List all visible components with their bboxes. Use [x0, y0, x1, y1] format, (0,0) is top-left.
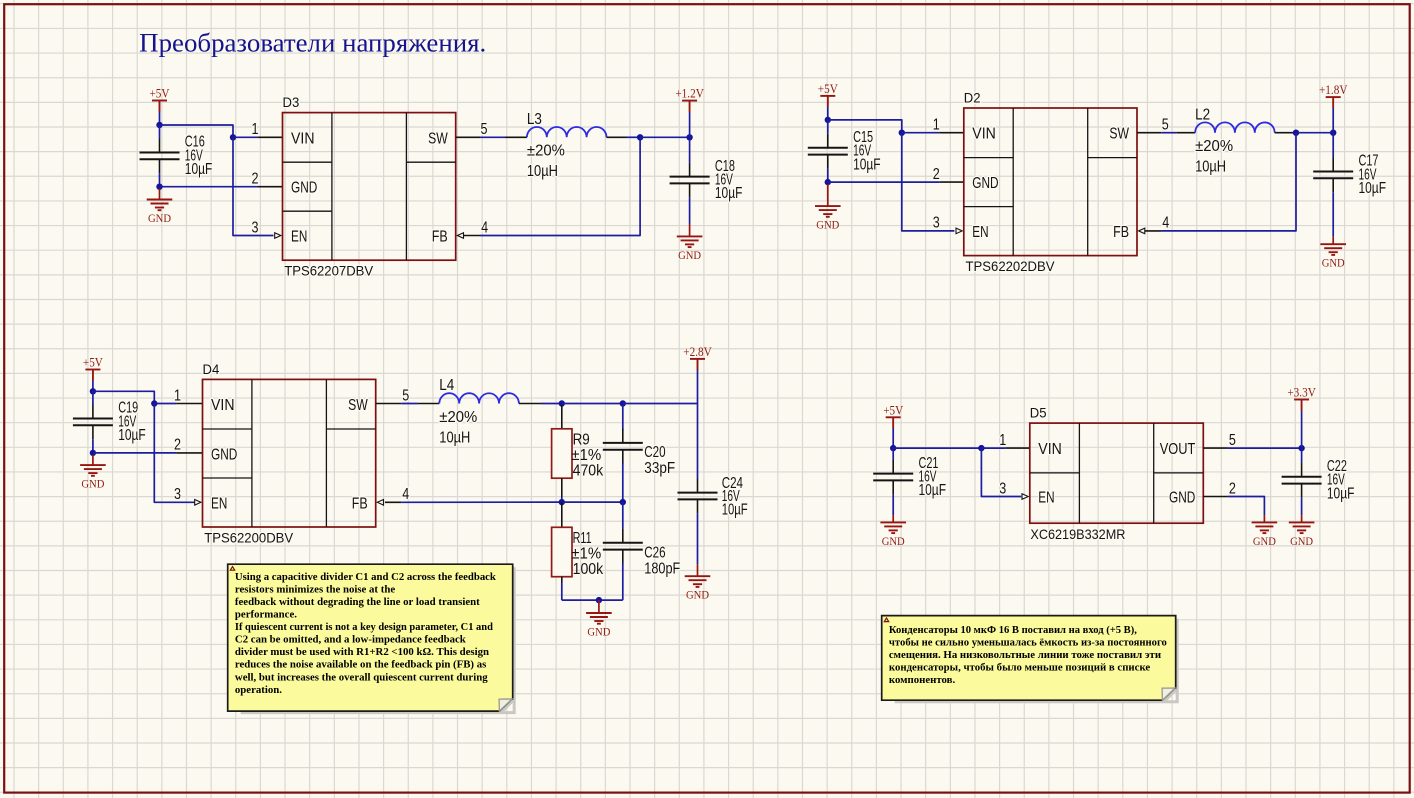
svg-text:10µF: 10µF [185, 161, 213, 178]
wire C16 top lead [159, 125, 161, 139]
wire +5V stem to node [159, 112, 161, 126]
wire R9 to FB net [561, 497, 563, 502]
junction C15/GND pin (D2) [825, 179, 831, 185]
svg-text:GND: GND [1253, 534, 1276, 548]
svg-text:4: 4 [402, 486, 409, 503]
svg-text:2: 2 [933, 166, 940, 183]
power +3.3V [1287, 385, 1316, 411]
svg-text:±20%: ±20% [439, 409, 477, 426]
pin 4 line (D4 FB) [385, 501, 401, 503]
ground GND under C22 [1289, 515, 1315, 548]
capacitor C21 [873, 460, 913, 495]
wire +5V stem to node (D5) [892, 428, 894, 448]
junction SW/FB feedback [637, 134, 643, 140]
resistor R9 [552, 429, 572, 478]
svg-text:3: 3 [933, 215, 940, 232]
wire +5V stem to node (D4) [92, 381, 94, 392]
FB input arrow (D4) [377, 500, 383, 506]
wire EN branch (D5) [981, 448, 1021, 496]
svg-text:feedback without degrading the: feedback without degrading the line or l… [235, 596, 480, 608]
FB input arrow (D2) [1139, 228, 1145, 234]
svg-text:SW: SW [428, 130, 448, 147]
svg-text:FB: FB [432, 229, 448, 246]
junction C19/GND pin (D4) [90, 450, 96, 456]
junction +1.2V/C18 [686, 134, 692, 140]
ground GND under C19 [80, 455, 106, 491]
wire to +1.8V node [1296, 132, 1333, 134]
wire node to C17 [1332, 133, 1334, 158]
wire to +2.8V branch [623, 403, 698, 405]
wire EN branch [233, 137, 274, 235]
svg-text:5: 5 [481, 121, 488, 138]
pin 2 line (GND) [258, 186, 283, 188]
svg-text:±20%: ±20% [527, 143, 565, 160]
svg-text:+1.2V: +1.2V [675, 86, 704, 101]
wire GND pin to ground [1228, 497, 1265, 516]
svg-text:10µF: 10µF [1359, 180, 1387, 197]
svg-text:performance.: performance. [235, 608, 297, 620]
wire node to C18 [689, 137, 691, 162]
wire EN branch (D2) [902, 133, 955, 231]
svg-text:+1.8V: +1.8V [1319, 82, 1348, 97]
wire C19 top lead [92, 391, 94, 404]
wire SW to L2 [1161, 132, 1176, 134]
power +5V (D4 input) [83, 355, 104, 381]
capacitor C26 bottom lead wire [622, 563, 624, 600]
junction VIN/EN branch (D5) [978, 445, 984, 451]
svg-text:GND: GND [816, 218, 839, 232]
L2 value label [1195, 106, 1233, 175]
C26 value label [644, 544, 680, 577]
junction +5V/C21 top [890, 445, 896, 451]
junction VIN/EN branch (D2) [899, 130, 905, 136]
op-amp U D4 TPS62200DBV body [203, 379, 376, 527]
power +5V (D2 input) [818, 81, 839, 107]
resistor R9 top lead [561, 405, 563, 429]
svg-text:+2.8V: +2.8V [683, 344, 712, 359]
ground GND under divider [586, 600, 612, 638]
wire to pin 1 (D5) [981, 447, 1005, 449]
capacitor C16 [140, 139, 180, 174]
svg-text:EN: EN [1038, 490, 1054, 507]
svg-text:Конденсаторы 10 мкФ 16 В поста: Конденсаторы 10 мкФ 16 В поставил на вхо… [889, 624, 1137, 636]
ground GND under C21 [880, 515, 906, 548]
svg-text:чтобы не сильно уменьшалась ём: чтобы не сильно уменьшалась ёмкость из-з… [889, 636, 1167, 648]
resistor R9 bottom lead [561, 478, 563, 497]
svg-text:±20%: ±20% [1195, 138, 1233, 155]
svg-text:смещения. На низковольтные лин: смещения. На низковольтные линии тоже по… [889, 649, 1161, 661]
svg-text:C26: C26 [644, 544, 665, 561]
svg-text:GND: GND [686, 588, 709, 602]
wire C15 bottom lead [827, 169, 829, 183]
svg-text:2: 2 [1229, 480, 1236, 497]
junction +1.8V/C17 [1330, 130, 1336, 136]
svg-text:10µH: 10µH [1195, 159, 1226, 176]
svg-text:C2 can be omitted, and a low-i: C2 can be omitted, and a low-impedance f… [235, 634, 466, 646]
inductor L2 [1195, 122, 1275, 132]
capacitor C18 [670, 163, 710, 198]
inductor L3 right lead [607, 136, 627, 138]
svg-text:3: 3 [999, 480, 1006, 497]
wire +1.8V stem [1332, 108, 1334, 133]
svg-text:3: 3 [252, 219, 259, 236]
svg-text:Преобразователи напряжения.: Преобразователи напряжения. [139, 28, 486, 57]
junction SW/C20 [620, 400, 626, 406]
ground GND under C18 [677, 224, 703, 262]
capacitor C26 top lead wire [622, 502, 624, 529]
junction FB/C20/C26 [620, 499, 626, 505]
pin 5 line (SW) [456, 136, 480, 138]
svg-text:GND: GND [972, 175, 998, 192]
inductor L2 left lead [1176, 132, 1195, 134]
svg-text:If quiescent current is not a: If quiescent current is not a key design… [235, 621, 493, 633]
power +1.8V [1319, 82, 1348, 108]
EN input arrow (D5) [1022, 494, 1028, 500]
junction +5V/C19 top [90, 388, 96, 394]
wire C15 top lead [827, 120, 829, 134]
resistor R11 [552, 527, 572, 576]
svg-text:5: 5 [1229, 432, 1236, 449]
pin 1 line (VIN) [258, 136, 283, 138]
svg-text:GND: GND [1169, 490, 1195, 507]
junction SW/R9 [559, 400, 565, 406]
svg-text:TPS62200DBV: TPS62200DBV [204, 529, 294, 545]
R9 value label [571, 431, 604, 479]
svg-text:470k: 470k [573, 462, 604, 479]
svg-text:VIN: VIN [972, 126, 996, 143]
svg-text:EN: EN [972, 224, 988, 241]
inductor L3 [527, 127, 607, 137]
svg-text:1: 1 [999, 432, 1006, 449]
svg-text:operation.: operation. [235, 684, 282, 696]
wire +2.8V stem [697, 370, 699, 404]
inductor L2 right lead [1275, 132, 1295, 134]
capacitor C19 [73, 405, 113, 440]
svg-text:GND: GND [882, 534, 905, 548]
svg-text:XC6219B332MR: XC6219B332MR [1030, 526, 1125, 542]
L3 value label [527, 111, 565, 180]
junction VIN/EN branch (D4) [151, 400, 157, 406]
wire +5V to VIN [160, 125, 234, 137]
wire C18 to ground [689, 197, 691, 223]
ground GND under C24 [685, 564, 711, 602]
svg-text:EN: EN [291, 229, 307, 246]
wire FB net [401, 501, 562, 503]
power +5V (D5 input) [883, 402, 904, 428]
svg-text:resistors minimizes the noise: resistors minimizes the noise at the [235, 583, 395, 595]
ground GND at D5 pin 2 [1252, 515, 1278, 548]
power +1.2V [675, 86, 704, 112]
svg-text:TPS62202DBV: TPS62202DBV [966, 258, 1056, 274]
svg-text:GND: GND [81, 477, 104, 491]
wire C24 to ground [697, 513, 699, 564]
junction FB/R9/R11 [559, 499, 565, 505]
C18 value label [715, 158, 743, 202]
inductor L4 [439, 393, 519, 403]
pin 5 line (D2 SW) [1137, 132, 1161, 134]
wire C17 to ground [1332, 192, 1334, 237]
svg-text:FB: FB [352, 495, 368, 512]
note (capacitor note, right) text [889, 624, 1167, 686]
pin 5 line (D4 SW) [376, 403, 402, 405]
wire GND net to pin 2 (D4) [93, 452, 176, 454]
svg-text:GND: GND [1322, 256, 1345, 270]
svg-text:10µF: 10µF [722, 502, 748, 519]
svg-text:1: 1 [174, 387, 181, 404]
pin 5 line (D5 VOUT) [1203, 447, 1228, 449]
svg-text:VIN: VIN [1038, 441, 1062, 458]
svg-text:180pF: 180pF [644, 560, 680, 577]
svg-text:GND: GND [148, 211, 171, 225]
svg-text:L2: L2 [1195, 106, 1210, 123]
pin 1 line (D4 VIN) [176, 403, 202, 405]
wire +5V to VIN (D2) [828, 120, 902, 133]
junction SW/FB feedback (D2) [1293, 130, 1299, 136]
wire L3 to FB node [627, 136, 641, 138]
pin 1 line (D2 VIN) [939, 132, 964, 134]
C16 value label [185, 134, 213, 178]
wire L4 to R9 node [541, 403, 562, 405]
svg-text:SW: SW [348, 397, 368, 414]
wire VOUT to +3.3V node [1228, 447, 1302, 449]
ground GND under C17 [1320, 237, 1346, 270]
svg-text:компонентов.: компонентов. [889, 674, 956, 686]
svg-text:+3.3V: +3.3V [1287, 385, 1316, 400]
svg-text:4: 4 [481, 219, 488, 236]
svg-text:10µF: 10µF [118, 427, 146, 444]
svg-text:5: 5 [402, 387, 409, 404]
svg-text:L3: L3 [527, 111, 542, 128]
inductor L4 left lead [418, 403, 439, 405]
svg-text:10µF: 10µF [853, 156, 881, 173]
capacitor C17 [1313, 158, 1353, 193]
wire bottom gnd net [562, 599, 623, 601]
svg-text:4: 4 [1162, 215, 1169, 232]
svg-text:3: 3 [174, 486, 181, 503]
svg-text:10µH: 10µH [439, 429, 470, 446]
wire +5V to VIN (D5) [893, 447, 981, 449]
svg-text:33pF: 33pF [644, 460, 675, 477]
pin 4 line (D2 FB) [1145, 230, 1162, 232]
wire to pin 1 [233, 136, 258, 138]
note (capacitor note, right) [882, 616, 1179, 704]
svg-text:+5V: +5V [818, 81, 839, 96]
wire L2 to FB node [1295, 132, 1296, 134]
svg-text:VIN: VIN [291, 130, 315, 147]
wire C19 bottom lead [92, 439, 94, 453]
svg-text:VIN: VIN [211, 397, 235, 414]
svg-text:GND: GND [1290, 534, 1313, 548]
wire EN branch (D4) [154, 404, 194, 503]
FB input arrow (D3) [457, 233, 463, 239]
svg-text:SW: SW [1109, 126, 1129, 143]
C21 value label [919, 455, 947, 499]
wire C16 bottom lead to GND node [159, 173, 161, 186]
svg-text:VOUT: VOUT [1160, 441, 1196, 458]
capacitor C22 [1282, 463, 1322, 498]
svg-text:R9: R9 [573, 431, 590, 448]
capacitor C20 bottom lead wire [622, 463, 624, 502]
wire FB feedback loop [480, 137, 640, 235]
EN input arrow (D4) [195, 500, 201, 506]
EN input arrow (D2) [956, 228, 962, 234]
wire R11 to bottom node [561, 583, 563, 601]
svg-text:R11: R11 [573, 530, 592, 547]
op-amp U D2 TPS62202DBV body [964, 108, 1137, 256]
pin 2 line (D5 GND) [1203, 496, 1228, 498]
svg-text:конденсаторы, чтобы было меньш: конденсаторы, чтобы было меньше позиций … [889, 662, 1150, 674]
op-amp U D3 TPS62207DBV body [283, 113, 456, 261]
svg-text:C20: C20 [644, 444, 665, 461]
svg-text:D3: D3 [283, 94, 300, 110]
svg-text:2: 2 [252, 171, 259, 188]
svg-text:GND: GND [291, 180, 317, 197]
power +5V (D3 input) [150, 86, 171, 112]
capacitor C24 [678, 479, 718, 514]
L4 value label [439, 377, 477, 446]
svg-text:100k: 100k [573, 561, 604, 578]
wire +1.2V stem [689, 112, 691, 137]
svg-text:±1%: ±1% [571, 447, 601, 464]
wire GND net to pin 2 (D2) [828, 181, 940, 183]
svg-text:10µF: 10µF [1327, 485, 1355, 502]
svg-text:reduces the noise available on: reduces the noise available on the feedb… [235, 659, 486, 671]
svg-text:5: 5 [1162, 117, 1169, 134]
op-amp U D5 XC6219B332MR body [1030, 423, 1204, 523]
capacitor C20 [603, 429, 643, 464]
C20 value label [644, 444, 675, 477]
svg-text:L4: L4 [439, 377, 454, 394]
junction +5V/C16 top [156, 122, 162, 128]
pin 2 line (D2 GND) [939, 181, 964, 183]
svg-text:D4: D4 [203, 361, 220, 377]
wire to pin 1 (D4) [154, 403, 176, 405]
wire to +1.2V node [640, 136, 690, 138]
svg-text:10µF: 10µF [919, 482, 947, 499]
svg-text:GND: GND [678, 248, 701, 262]
capacitor C20 top lead wire [622, 404, 624, 430]
junction +3.3V/C22 [1298, 445, 1304, 451]
svg-text:±1%: ±1% [571, 546, 601, 563]
wire FB feedback loop (D2) [1161, 133, 1296, 231]
wire +2.8V branch down to C24 [697, 404, 699, 479]
svg-text:1: 1 [252, 121, 259, 138]
junction C16/GND pin [156, 184, 162, 190]
svg-text:1: 1 [933, 117, 940, 134]
svg-text:10µF: 10µF [715, 185, 743, 202]
inductor L3 left lead [505, 136, 527, 138]
svg-text:Using a capacitive divider C1: Using a capacitive divider C1 and C2 acr… [235, 571, 496, 583]
wire node to C22 [1301, 448, 1303, 463]
inductor L4 right lead [519, 403, 541, 405]
svg-text:TPS62207DBV: TPS62207DBV [284, 263, 374, 279]
junction bottom gnd tap [596, 597, 602, 603]
svg-text:well, but increases the overal: well, but increases the overall quiescen… [235, 671, 488, 683]
capacitor C26 [603, 529, 643, 564]
svg-text:divider must be used with R1+R: divider must be used with R1+R2 <100 kΩ.… [235, 646, 489, 658]
R11 value label [571, 530, 604, 578]
wire +5V to VIN (D4) [93, 391, 154, 403]
ground GND under C15 [815, 184, 841, 232]
svg-text:+5V: +5V [83, 355, 104, 370]
capacitor C15 [808, 134, 848, 169]
wire FB to C20/C26 node [562, 501, 623, 503]
wire SW to L3 [480, 136, 505, 138]
svg-text:+5V: +5V [150, 86, 171, 101]
pin 4 line (FB) [463, 235, 480, 237]
svg-text:D2: D2 [964, 89, 981, 105]
resistor R11 top lead [561, 502, 563, 527]
C19 value label [118, 400, 146, 444]
EN input arrow (D3) [275, 233, 281, 239]
junction +5V/C15 top [825, 117, 831, 123]
ground GND under C16 [147, 189, 173, 225]
wire SW to L4 [401, 403, 418, 405]
C15 value label [853, 129, 881, 173]
C24 value label [722, 475, 748, 518]
note (design note, left) [228, 564, 516, 714]
junction VIN/EN branch [230, 134, 236, 140]
resistor R11 bottom lead [561, 577, 563, 583]
wire +5V stem to node (D2) [827, 107, 829, 120]
C22 value label [1327, 458, 1355, 502]
note (design note, left) text [235, 571, 496, 696]
svg-text:GND: GND [587, 624, 610, 638]
pin 2 line (D4 GND) [176, 452, 202, 454]
wire C21 top lead [892, 448, 894, 460]
wire C21 bottom lead to ground [892, 494, 894, 515]
svg-text:2: 2 [174, 437, 181, 454]
C17 value label [1359, 153, 1387, 197]
svg-text:GND: GND [211, 446, 237, 463]
wire GND net to pin 2 [160, 186, 259, 188]
svg-text:10µH: 10µH [527, 163, 558, 180]
wire +3.3V stem [1301, 411, 1303, 448]
svg-text:EN: EN [211, 495, 227, 512]
wire to pin 1 (D2) [902, 132, 940, 134]
svg-text:+5V: +5V [883, 402, 904, 417]
wire R9 node to C20 node [562, 403, 623, 405]
svg-text:FB: FB [1113, 224, 1129, 241]
wire C22 to ground [1301, 498, 1303, 515]
svg-text:D5: D5 [1030, 405, 1047, 421]
pin 1 line (D5 VIN) [1005, 447, 1030, 449]
power +2.8V [683, 344, 712, 370]
